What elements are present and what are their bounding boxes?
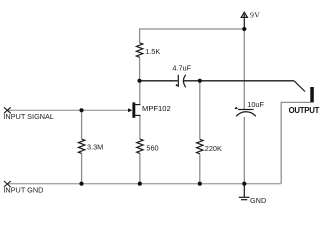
svg-text:MPF102: MPF102 bbox=[142, 104, 171, 113]
svg-text:1.5K: 1.5K bbox=[145, 47, 160, 56]
svg-text:9V: 9V bbox=[250, 11, 260, 20]
svg-text:INPUT GND: INPUT GND bbox=[3, 186, 43, 195]
svg-text:3.3M: 3.3M bbox=[87, 143, 103, 152]
svg-text:10uF: 10uF bbox=[247, 100, 264, 109]
svg-text:560: 560 bbox=[146, 144, 158, 153]
svg-text:220K: 220K bbox=[205, 144, 222, 153]
svg-text:GND: GND bbox=[250, 196, 266, 205]
svg-text:INPUT SIGNAL: INPUT SIGNAL bbox=[3, 112, 54, 121]
svg-text:4.7uF: 4.7uF bbox=[172, 64, 191, 73]
svg-text:OUTPUT: OUTPUT bbox=[289, 106, 320, 115]
